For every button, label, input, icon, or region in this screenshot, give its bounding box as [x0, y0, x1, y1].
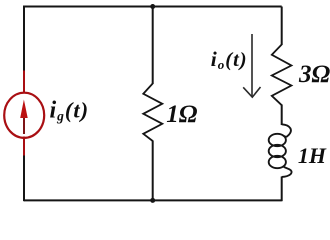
resistor R 1ohm zigzag: [143, 84, 162, 142]
wire: right branch bottom segment below inductor: [281, 177, 283, 202]
wire: left branch lower black segment: [23, 156, 25, 202]
inductor L 1H loop 2: [269, 145, 286, 157]
svg-text:io(t): io(t): [211, 47, 248, 72]
wire: left branch lower red stub from source: [23, 137, 25, 157]
current source arrowhead: [20, 100, 28, 119]
wire: left branch upper red stub into source: [23, 71, 25, 95]
current source arrow shaft: [23, 112, 25, 134]
inductor L 1H entry arc: [282, 124, 291, 136]
wire: left branch upper black segment: [23, 6, 25, 72]
inductor L 1H loop 3: [269, 156, 286, 168]
wire: right branch top segment: [281, 7, 283, 46]
node: bottom junction dot: [150, 198, 155, 203]
resistor 3ohm zigzag: [272, 45, 292, 106]
node: top junction dot: [150, 4, 155, 9]
svg-text:ig(t): ig(t): [50, 98, 90, 124]
current arrow io pointing down: [243, 34, 260, 97]
wire: top rail from left corner to right corner: [24, 6, 282, 8]
svg-text:1Ω: 1Ω: [166, 101, 198, 128]
wire: middle branch lower segment: [152, 141, 154, 202]
inductor L 1H loop 1: [269, 134, 286, 146]
inductor L 1H exit arc: [282, 166, 292, 177]
wire: bottom rail: [24, 199, 282, 201]
current source ig circle: [4, 93, 44, 138]
svg-text:1H: 1H: [298, 143, 327, 168]
svg-text:3Ω: 3Ω: [298, 61, 330, 88]
wire: right branch segment between resistor and inductor: [281, 105, 283, 126]
wire: middle branch upper segment: [152, 7, 154, 85]
